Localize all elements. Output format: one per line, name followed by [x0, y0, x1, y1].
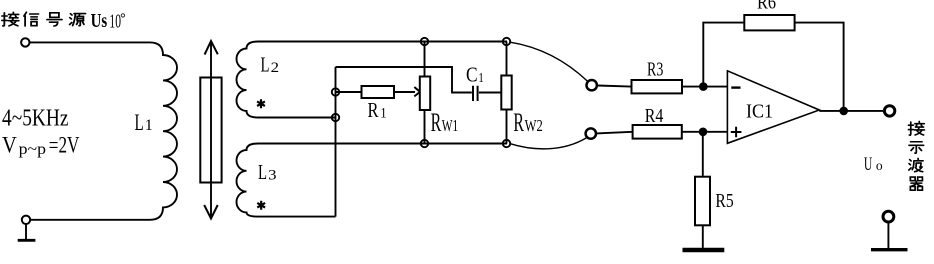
svg-text:R: R [513, 108, 524, 137]
svg-text:R: R [368, 98, 379, 122]
svg-text:R: R [431, 108, 442, 137]
terminal: output Uo [884, 106, 894, 116]
wire: R4 to op-amp non-inverting input [682, 131, 728, 133]
polarity mark * (L3) [257, 201, 265, 210]
resistor R3 [632, 80, 683, 93]
wire: R6 to output [795, 23, 844, 111]
svg-text:L: L [135, 110, 144, 135]
svg-text:4~5KHz: 4~5KHz [2, 105, 69, 132]
svg-text:C: C [466, 62, 478, 86]
wire: R5 stem [702, 132, 704, 177]
svg-text:L: L [261, 53, 270, 77]
resistor R1 [362, 86, 395, 98]
svg-text:2: 2 [271, 60, 279, 76]
wire: curve bottom rail to terminal [510, 138, 587, 149]
transformer core [200, 78, 221, 183]
ground (R5) [683, 248, 725, 252]
inductor L2 (secondary top) [237, 42, 425, 118]
wire: R3 to op-amp inverting input [682, 86, 727, 88]
node: inverting input junction [699, 82, 708, 91]
resistor R6 [744, 15, 794, 30]
svg-text:Us: Us [91, 10, 108, 32]
svg-text:IC1: IC1 [746, 100, 773, 122]
node ring: Rw1 bottom [421, 140, 428, 147]
wire: R1 left [336, 91, 362, 93]
svg-text:R6: R6 [757, 0, 776, 13]
svg-text:R5: R5 [715, 190, 733, 212]
node: output junction [839, 107, 848, 116]
resistor R4 [633, 125, 682, 139]
wire: terminal to R4 [596, 132, 632, 134]
svg-text:o: o [876, 159, 883, 174]
svg-text:10: 10 [109, 11, 121, 32]
wire: R5 to ground [702, 225, 704, 248]
svg-text:3: 3 [268, 167, 276, 183]
svg-text:p~p: p~p [19, 141, 47, 158]
capacitor C1 [473, 86, 478, 101]
node ring: center tap lower (L2 bottom) [332, 114, 339, 121]
node ring: center tap upper (R1 tap) [332, 88, 339, 95]
svg-text:V: V [2, 132, 17, 158]
node ring: Rw2 bottom [503, 140, 510, 147]
svg-text:R3: R3 [647, 59, 663, 81]
wire: R1 wiper arrow into Rw1 [394, 91, 415, 93]
label: 接信号源 (top-left header) [2, 12, 86, 26]
resistor R5 [695, 177, 710, 226]
node: non-inverting input junction [699, 128, 708, 137]
svg-text:R4: R4 [645, 105, 664, 127]
wire: op-amp output [819, 110, 884, 112]
svg-text:L: L [258, 160, 267, 184]
terminal: signal source bottom [22, 216, 30, 224]
op-amp plus sign [731, 127, 742, 138]
op-amp minus sign [731, 86, 740, 88]
op-amp IC1 [727, 71, 819, 144]
label: 接示波器 (vertical) [908, 121, 924, 190]
svg-text:W2: W2 [525, 116, 543, 135]
svg-text:W1: W1 [442, 116, 458, 135]
potentiometer Rw2 [506, 42, 508, 144]
wire: center-tap vertical rail [335, 67, 337, 217]
wire: feedback loop with R6 [703, 23, 744, 87]
wire: top rail L2 to Rw1/Rw2 [425, 41, 508, 43]
wire: source top to L1 and inductor L1 primary coil [30, 42, 177, 219]
wire: curve top rail to terminal [510, 42, 588, 81]
ground (oscilloscope) [887, 222, 889, 248]
node ring: Rw1 top [421, 38, 428, 45]
svg-text:=2V: =2V [49, 132, 80, 158]
terminal: signal source top [21, 38, 29, 46]
svg-text:1: 1 [380, 106, 386, 122]
terminal: inverting branch [587, 80, 597, 90]
terminal: oscilloscope ground [883, 211, 894, 222]
node ring: Rw2 top [503, 38, 510, 45]
polarity mark * (L2) [257, 99, 265, 108]
wire: terminal to R3 [597, 86, 631, 87]
wire: bottom rail L3 to Rw1/Rw2 [258, 143, 507, 145]
svg-text:U: U [864, 154, 873, 175]
svg-text:1: 1 [145, 117, 153, 134]
wire: jog to C1 left [336, 67, 472, 93]
inductor L3 (secondary bottom) [237, 144, 336, 217]
terminal: non-inverting branch [586, 128, 596, 138]
ground (signal source) [25, 224, 27, 239]
svg-text:1: 1 [478, 71, 483, 86]
potentiometer Rw1 [424, 42, 426, 144]
